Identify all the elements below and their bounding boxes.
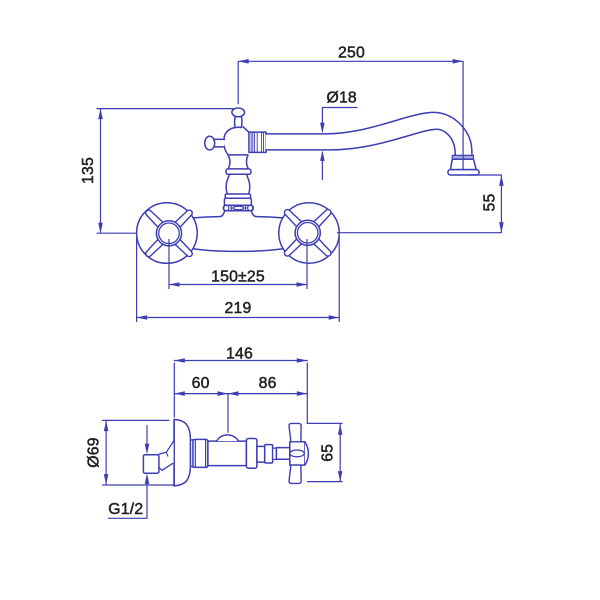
dimension O18 leader <box>322 108 357 180</box>
valve ring A <box>257 446 265 462</box>
supply pipe lower line <box>159 463 173 470</box>
diverter lever stem <box>214 139 225 147</box>
supply pipe upper line <box>159 441 174 454</box>
arrow 219 right <box>329 315 340 320</box>
dimension 60-86 line <box>174 394 307 433</box>
svg-text:65: 65 <box>320 444 337 462</box>
dome-nut fillet bottom <box>190 466 193 467</box>
base nut center ellipse <box>233 206 244 210</box>
arrow 150 left <box>169 282 180 287</box>
right hub outer <box>295 220 320 245</box>
dimension 146 line <box>174 361 307 424</box>
dome-nut fillet top <box>190 439 193 442</box>
arrow 86 left <box>228 391 239 396</box>
arrow 146 right <box>297 358 308 363</box>
body bottom edge <box>192 249 284 252</box>
arrow O18 down <box>320 123 325 134</box>
handle hub cap arc <box>305 442 309 465</box>
arrow 60 right <box>218 391 229 396</box>
svg-text:60: 60 <box>192 375 210 392</box>
spout bottom edge <box>266 129 456 156</box>
arrow 65 bottom <box>338 471 343 482</box>
valve hex nut <box>193 439 208 467</box>
connector rib lines <box>251 132 263 152</box>
column neck <box>235 117 242 128</box>
spout bell <box>451 159 477 169</box>
arrow 135 top <box>98 109 103 120</box>
valve ring B <box>265 445 273 463</box>
svg-text:150±25: 150±25 <box>211 269 265 286</box>
svg-text:219: 219 <box>225 300 252 317</box>
dome rim line <box>173 419 175 486</box>
arrow 146 left <box>174 358 185 363</box>
spout tube fill <box>266 112 472 156</box>
top knob <box>232 108 245 117</box>
valve cylinder <box>208 441 247 466</box>
dimension O69 line <box>103 420 175 485</box>
base nut tick left <box>230 206 232 210</box>
svg-text:55: 55 <box>482 194 499 212</box>
nut facet lines <box>195 440 205 467</box>
wall dome escutcheon profile <box>174 419 190 486</box>
svg-text:G1/2: G1/2 <box>108 501 143 518</box>
base nut right hole <box>248 205 253 210</box>
body top edge <box>192 211 225 218</box>
ball outline <box>224 128 248 155</box>
left handle spokes <box>144 208 194 258</box>
right escutcheon <box>279 203 339 263</box>
column vase lower bulge <box>226 174 250 194</box>
dimension 250 line <box>238 61 463 169</box>
spout top edge <box>266 112 472 156</box>
left escutcheon <box>137 203 198 264</box>
base nut left hole <box>224 205 229 210</box>
spout rim <box>448 170 479 175</box>
arrow 55 top <box>499 175 504 186</box>
svg-text:Ø69: Ø69 <box>86 437 103 467</box>
handle bottom spoke <box>289 465 301 483</box>
handle top spoke <box>289 423 301 441</box>
base band <box>224 198 251 205</box>
arrow 150 right <box>297 282 308 287</box>
arrow 135 bottom <box>98 223 103 234</box>
dimension 219 line <box>137 237 340 322</box>
arrow 60 left <box>174 391 185 396</box>
svg-text:Ø18: Ø18 <box>326 89 356 106</box>
left hub inner <box>159 223 180 244</box>
arrow 86 right <box>297 391 308 396</box>
spout ribbed connector <box>249 132 266 152</box>
dimension 150 line <box>169 240 307 289</box>
supply pipe angled <box>159 441 174 470</box>
handle hub side <box>290 442 305 465</box>
valve collar ribs <box>273 448 277 459</box>
right handle spokes <box>283 208 333 258</box>
arrow O69 bottom <box>104 474 109 485</box>
dimension 135 line <box>97 109 234 234</box>
svg-text:146: 146 <box>226 345 253 362</box>
union square G1/2 <box>143 455 159 474</box>
right hub inner <box>297 223 318 244</box>
svg-text:86: 86 <box>259 375 277 392</box>
valve flange <box>246 439 257 469</box>
base collar wide <box>225 194 250 199</box>
svg-text:135: 135 <box>80 157 97 184</box>
spout collar band <box>452 155 473 159</box>
arrow 250 right <box>453 59 464 64</box>
faucet body (front view horizontal body) <box>192 212 284 252</box>
body top edge right <box>251 211 284 218</box>
collar ring upper <box>226 169 251 174</box>
waist left line <box>228 155 230 169</box>
column waist upper <box>228 155 248 169</box>
ball right shoulder <box>243 127 248 132</box>
valve dome bump <box>216 435 238 441</box>
left hub outer <box>156 221 181 246</box>
arrow 65 top <box>338 424 343 435</box>
handle hub lens <box>290 450 305 457</box>
base nut tick right <box>245 206 247 210</box>
dimension 65 line <box>307 423 342 481</box>
waist right line <box>246 155 248 169</box>
arrow 250 left <box>238 59 249 64</box>
dimension 55 line <box>338 175 502 233</box>
valve stem <box>276 448 290 460</box>
column ball body <box>224 127 249 155</box>
G1/2 pointer lines <box>108 426 147 519</box>
arrow 55 bottom <box>499 222 504 233</box>
arrow O69 top <box>104 421 109 432</box>
arrow G12 down <box>145 444 150 455</box>
arrow G12 up <box>145 473 150 484</box>
arrow 219 left <box>137 315 148 320</box>
supply pipe cap line <box>166 452 168 456</box>
base nut row <box>223 205 253 211</box>
arrow O18 up <box>320 150 325 161</box>
diverter lever knob <box>205 136 215 150</box>
svg-text:250: 250 <box>338 44 365 61</box>
